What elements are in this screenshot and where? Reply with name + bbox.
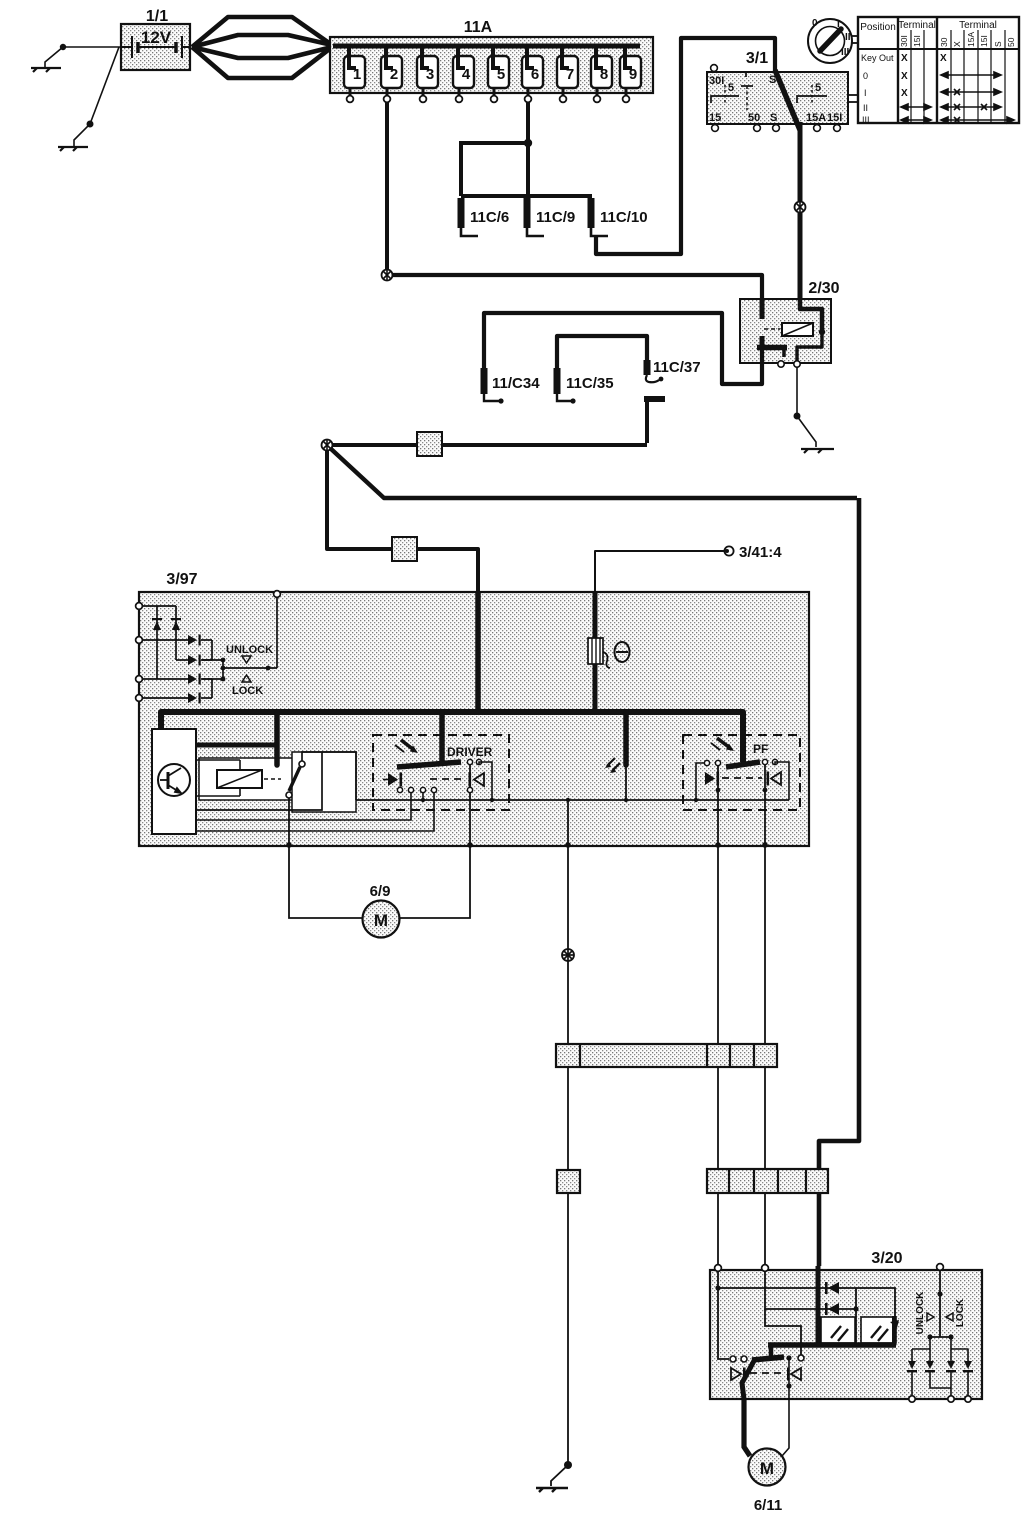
connector bar B1 [556, 1044, 777, 1067]
wire top terminal to rocker [276, 597, 278, 668]
wire thick into 3/20 to bus [816, 1266, 821, 1345]
fuse 9 [620, 46, 641, 102]
wire coil feed [800, 299, 822, 331]
wire slant to ground 1 [45, 47, 63, 67]
key switch symbol [808, 18, 852, 63]
relay 2/30 [740, 299, 831, 363]
wire switch pivot top [302, 752, 356, 800]
terminal circles 3/20 top [715, 1264, 944, 1272]
diode col 968 [963, 1361, 973, 1372]
terminal 3/41:4 [724, 544, 782, 561]
bus stub to relay [274, 712, 280, 765]
connector bar B2 [707, 1169, 828, 1193]
svg-text:M: M [374, 911, 388, 930]
connector 11C/9 [524, 198, 576, 236]
node dot [715, 1285, 720, 1290]
node dot [694, 798, 698, 802]
wire exit3 down to ground bottom [567, 846, 569, 1462]
connector 11/C34 [481, 368, 541, 404]
node dot [421, 798, 425, 802]
PF mech link dashes [722, 777, 762, 779]
terminal circles bottom 3/1 [712, 125, 841, 132]
theta symbol [615, 642, 630, 662]
fuse 5 [488, 46, 509, 102]
node dot fuse6 branch [524, 139, 532, 147]
node circle [467, 787, 472, 792]
svg-text:4: 4 [462, 66, 471, 83]
svg-text:LOCK: LOCK [232, 685, 263, 697]
relay coil 3/97 [217, 770, 281, 788]
lock switch blade bar [752, 1357, 784, 1360]
PF diode right [767, 772, 782, 786]
wire to ground 2 [74, 124, 90, 146]
wire 3/41:4 feed into 3/97 [593, 592, 598, 638]
svg-text:11/C34: 11/C34 [492, 375, 540, 392]
wire exit to splice [567, 800, 569, 843]
diode col 951 [946, 1361, 956, 1372]
pin bracket left with label 5 [711, 82, 739, 103]
svg-text:6/11: 6/11 [754, 1497, 782, 1514]
contact circles [730, 1356, 736, 1362]
driver diode left [383, 773, 402, 787]
wire 2/30 to ground [796, 367, 798, 413]
driver mech link dashes [430, 778, 466, 780]
fuse 6 [522, 46, 543, 102]
thick stub right of bus [890, 1316, 899, 1345]
fusebox 11A [330, 37, 653, 93]
DRIVER dashed box [373, 735, 509, 810]
wire motor 6/11 thick [744, 1399, 750, 1456]
svg-text:11C/6: 11C/6 [470, 209, 509, 226]
wire PF right output down [764, 764, 766, 843]
svg-text:12V: 12V [141, 28, 172, 47]
diode right 3/20 [787, 1368, 801, 1381]
PF dashed box [683, 735, 800, 810]
svg-text:6: 6 [531, 66, 539, 83]
diode col 930 [925, 1361, 935, 1372]
svg-text:8: 8 [600, 66, 608, 83]
wire junction B to 11C/37 [332, 443, 647, 447]
node dot [624, 798, 628, 802]
fuse 4 [453, 46, 474, 102]
svg-text:3/41:4: 3/41:4 [739, 544, 782, 561]
svg-text:9: 9 [629, 66, 637, 83]
svg-text:3/20: 3/20 [871, 1250, 902, 1267]
svg-text:DRIVER: DRIVER [447, 745, 493, 759]
link key to table [852, 36, 860, 43]
driver terminal circles [397, 787, 436, 792]
svg-text:Terminal: Terminal [898, 20, 936, 31]
wire branch to 11C/6 [461, 143, 528, 196]
svg-text:0: 0 [812, 18, 818, 29]
junction A symbol [382, 270, 393, 281]
LOCK label and arrow [242, 675, 251, 682]
svg-text:Terminal: Terminal [959, 20, 997, 31]
node dot [794, 413, 801, 420]
svg-text:X: X [940, 53, 947, 64]
wire 2/30 contact out to 11/C34 [484, 313, 762, 384]
node dot [490, 798, 494, 802]
svg-text:5: 5 [497, 66, 505, 83]
terminal circle top edge 3/97 [274, 591, 281, 598]
connector 11C/37 lower half [644, 396, 665, 443]
fuse 8 [591, 46, 612, 102]
wire 3/41:4 to 3/97 [595, 551, 724, 592]
wire junction B down to 3/97 [327, 450, 478, 592]
wire unlock terminal down [939, 1270, 941, 1337]
node dot [87, 121, 94, 128]
svg-text:3/97: 3/97 [166, 571, 197, 588]
node dot coil terminal [819, 329, 825, 335]
svg-text:III: III [862, 115, 870, 125]
svg-text:15A: 15A [966, 32, 976, 47]
wire harness battery to fusebox (4 thick lines) [192, 17, 332, 78]
svg-text:6/9: 6/9 [370, 883, 391, 900]
split bar [930, 1336, 951, 1338]
diode right row1 [188, 635, 201, 646]
node dot [716, 788, 721, 793]
wire junction A to relay 2/30 contact [392, 275, 762, 299]
wire bus to LED stub [623, 712, 629, 765]
svg-text:5: 5 [728, 82, 734, 94]
diode right row3 [188, 674, 201, 685]
diode right row4 [188, 693, 201, 704]
relay fixed contact [760, 299, 765, 319]
PF left bracket [696, 763, 704, 800]
svg-text:7: 7 [566, 66, 574, 83]
wire transistor to relay stub [196, 743, 275, 748]
svg-text:Position: Position [860, 22, 896, 33]
wire thick feed into 3/97 [475, 592, 481, 714]
svg-text:S: S [770, 112, 777, 124]
node dots diode bus [221, 658, 226, 663]
wire switch contact down to exit [288, 798, 290, 843]
node dot [566, 798, 570, 802]
wire LED stub to y800 [625, 765, 627, 800]
diode up A [152, 618, 162, 630]
svg-text:30I: 30I [709, 75, 724, 87]
PF contact circles left [704, 760, 720, 765]
svg-text:1/1: 1/1 [146, 8, 168, 25]
driver diode right [469, 773, 485, 787]
wires below diodes [929, 1337, 931, 1361]
wire transistor to driver t1 [196, 793, 411, 820]
wire line b [765, 1271, 856, 1309]
switch blade 3/1 [775, 70, 800, 130]
opto square right [861, 1317, 896, 1343]
lock switch blade [742, 1359, 755, 1399]
wire motor 6/11 thin [782, 1399, 789, 1456]
diode on line b [825, 1303, 839, 1315]
wire right trunk down to 3/20 [819, 498, 859, 1266]
transistor symbol [158, 764, 190, 796]
wire left edge down to switch [718, 1288, 729, 1359]
node dot bottom ground [564, 1461, 572, 1469]
fuse 7 [557, 46, 578, 102]
svg-text:1: 1 [353, 66, 361, 83]
svg-text:2/30: 2/30 [808, 280, 839, 297]
svg-text:30I: 30I [899, 35, 909, 47]
svg-text:M: M [760, 1459, 774, 1478]
svg-text:Key Out: Key Out [861, 53, 894, 63]
PF contact circles right [762, 759, 777, 764]
svg-text:UNLOCK: UNLOCK [915, 1291, 926, 1335]
fuse 3 [417, 46, 438, 102]
node dot [853, 1306, 858, 1311]
wire PF left output down [717, 765, 719, 843]
inline connector square C1 [417, 432, 442, 456]
svg-text:50: 50 [748, 112, 760, 124]
relay coil 2/30 [764, 323, 813, 336]
svg-text:11C/37: 11C/37 [653, 359, 701, 376]
diode network wires [142, 606, 223, 698]
wire line a [718, 1271, 895, 1317]
svg-text:X: X [952, 41, 962, 47]
terminal circles 3/20 bottom [909, 1396, 971, 1402]
diode on line a [825, 1282, 839, 1294]
wire transistor to driver t2 [196, 793, 434, 831]
PF actuation arrow [711, 738, 734, 751]
splice symbol mid [562, 949, 574, 961]
thick stub bus to blade [769, 1345, 774, 1358]
wire driver t3 to y800 [422, 792, 424, 800]
diode right row2 [188, 655, 201, 666]
connector 11C/35 [554, 368, 614, 404]
svg-text:LOCK: LOCK [955, 1298, 966, 1327]
node dot [786, 1383, 791, 1388]
battery 1/1 [121, 24, 190, 70]
svg-text:30: 30 [939, 37, 949, 47]
transistor box [152, 729, 196, 834]
wire connector bus [461, 194, 592, 198]
wire 11C/10 to ignition switch 3/1 [596, 38, 775, 254]
wire 3/97 to motor 6/9 left [289, 846, 362, 918]
fuse 1 [344, 46, 365, 102]
connector 11C/10 [588, 198, 648, 236]
wire battery to ground 1 [63, 46, 121, 48]
svg-text:PF: PF [753, 742, 768, 756]
terminal circles 3/97 left edge [136, 603, 143, 702]
wire coil to ground exit [797, 332, 822, 362]
svg-text:I: I [837, 19, 840, 30]
wire bus to driver switch [439, 712, 445, 762]
PF right bracket [775, 762, 789, 800]
svg-text:0: 0 [863, 71, 868, 81]
fusebox bus bar [333, 44, 640, 49]
wire fuse 6 down [526, 102, 530, 196]
junction B symbol [322, 440, 333, 451]
wire PF outputs down [717, 846, 719, 1266]
svg-text:15I: 15I [979, 35, 989, 47]
svg-text:X: X [901, 88, 908, 99]
svg-text:II: II [863, 103, 868, 113]
svg-text:S: S [993, 41, 1003, 47]
wire splice to 2/30 coil [798, 213, 803, 299]
svg-text:15I: 15I [827, 112, 842, 124]
svg-text:15A: 15A [806, 112, 826, 124]
ignition position table [858, 17, 1019, 125]
lock unit 3/20 [710, 1270, 982, 1399]
diode up B [171, 618, 181, 630]
svg-text:X: X [901, 71, 908, 82]
svg-text:11C/35: 11C/35 [566, 375, 614, 392]
white box relay area [199, 758, 318, 800]
wire switch to transistor [196, 752, 322, 810]
lock arrow [946, 1313, 953, 1321]
diode col 912 [907, 1361, 917, 1372]
ground symbol 1 [31, 68, 61, 72]
unlock arrow [927, 1313, 934, 1321]
svg-text:I: I [864, 88, 867, 98]
node dots rocker [221, 666, 226, 671]
relay coil bracket [196, 760, 240, 796]
svg-text:11C/9: 11C/9 [536, 209, 575, 226]
relay moving contact [757, 336, 787, 357]
switch S1 [286, 761, 305, 798]
wire thermistor to bus [593, 664, 598, 714]
wire slant bottom ground [551, 1465, 568, 1486]
wire 3/1 blade down to relay 2/30 [798, 122, 803, 201]
motor 6/9 [363, 901, 400, 938]
node dot [763, 788, 768, 793]
mech link dashes 3/20 [750, 1372, 785, 1374]
svg-text:11C/10: 11C/10 [600, 209, 648, 226]
svg-text:II: II [845, 32, 851, 43]
main bus 3/97 [161, 712, 743, 762]
svg-text:III: III [841, 47, 850, 58]
ignition switch 3/1 [707, 72, 848, 124]
motor 6/11 [749, 1449, 786, 1486]
connector 11C/37 upper half [644, 359, 701, 382]
rocker line [223, 667, 277, 669]
PF switch blade bar [726, 762, 760, 767]
wire branch to left opto [855, 1288, 857, 1345]
wire zigzag to right contact [765, 1309, 801, 1355]
wire junction B diagonal to right trunk [330, 448, 857, 498]
LED photo arrows [605, 758, 620, 773]
thick bus 3/20 [768, 1342, 896, 1348]
rails [911, 1349, 913, 1362]
svg-text:50: 50 [1006, 37, 1016, 47]
node dot [60, 44, 66, 50]
svg-text:3: 3 [426, 66, 434, 83]
pin bracket right with label 5 [797, 82, 827, 103]
terminal 30I circle [711, 65, 718, 72]
wire driver output down [469, 765, 471, 843]
pin marker center [741, 73, 753, 110]
svg-text:15: 15 [709, 112, 721, 124]
PF diode left [705, 772, 719, 786]
svg-text:15I: 15I [912, 35, 922, 47]
link 3/1 to table [848, 95, 860, 102]
connector square C3 [557, 1170, 580, 1193]
inline connector square C2 [392, 537, 417, 561]
svg-text:3/1: 3/1 [746, 50, 768, 67]
svg-text:11A: 11A [464, 19, 493, 36]
long internal wire y800 [356, 799, 789, 801]
svg-text:5: 5 [815, 82, 821, 94]
svg-text:2: 2 [390, 66, 398, 83]
wire 3/97 to motor 6/9 right [400, 846, 470, 918]
exit dots 3/97 bottom [286, 842, 768, 848]
opto square left [821, 1317, 855, 1343]
wire right contact down [788, 1358, 790, 1399]
svg-text:X: X [901, 53, 908, 64]
wire fuse 2 down to junction A [385, 102, 389, 271]
white box switch area [292, 752, 356, 812]
driver actuation arrow [395, 740, 418, 753]
driver switch blade bar [397, 762, 461, 767]
driver right bracket [479, 762, 492, 800]
ground symbol 2/30 [801, 449, 834, 453]
node dot [937, 1291, 942, 1296]
fuse 2 [381, 46, 402, 102]
ground symbol bottom [536, 1488, 568, 1492]
wire 11C/35 up and right to 11C/37 [557, 336, 647, 368]
diode left 3/20 [731, 1368, 746, 1381]
junction splice symbol [795, 202, 806, 213]
thermistor symbol [588, 638, 610, 668]
wire slant to ground [797, 416, 816, 447]
svg-text:UNLOCK: UNLOCK [226, 644, 273, 656]
ground symbol 2 [58, 147, 88, 151]
control unit 3/97 [139, 592, 809, 846]
wire slant to ground 2 [90, 47, 119, 124]
connector 11C/6 [458, 198, 510, 236]
terminal circles 2/30 bottom [778, 361, 784, 367]
driver right contact circles [467, 759, 481, 764]
